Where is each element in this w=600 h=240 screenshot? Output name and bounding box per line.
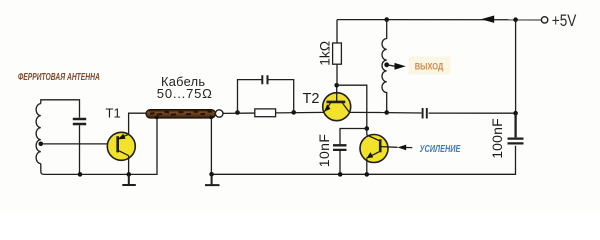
wire to 10nF top [340,129,367,146]
node Q3 collector [365,126,370,131]
wire T1 base [41,143,117,145]
svg-text:100nF: 100nF [489,118,505,159]
wire Q3 emitter down [366,159,368,175]
wire C1 bottom [79,125,81,174]
inductor L2 output coil [382,20,387,113]
node antenna tap [39,142,44,147]
node Q3 emitter at bus [365,172,370,177]
resistor R2 1kΩ [333,43,342,64]
label ФЕРРИТОВАЯ АНТЕННА [18,71,100,83]
node T1 collector at bus [127,172,132,177]
terminal +5V [541,17,547,23]
wire T2 base to Q3 [337,85,367,128]
wire R2 leads [336,20,338,86]
wire RC top branch [238,80,294,113]
svg-text:T2: T2 [303,91,320,107]
node +5V / C5 [513,111,518,116]
arrow on top bus [481,16,494,23]
wire Q3 base out [382,146,398,149]
label Кабель [157,74,213,101]
svg-text:10nF: 10nF [316,134,332,168]
svg-text:T1: T1 [106,105,121,120]
label 100nF [489,118,505,159]
svg-text:УСИЛЕНИЕ: УСИЛЕНИЕ [420,143,462,154]
ground middle [205,174,220,185]
wire top bus [337,19,541,21]
transistor Q3 gain control [360,135,388,163]
capacitor C4 inline [423,108,427,119]
wire T2 collector right [349,111,386,113]
arrow УСИЛЕНИЕ [398,145,407,151]
wire T1 collector down [128,156,130,175]
cable coax body [146,110,216,118]
arrow to ВЫХОД [387,65,395,66]
wire antenna top [41,100,80,118]
label УСИЛЕНИЕ [420,143,462,154]
label ВЫХОД [409,57,451,75]
capacitor C3 10nF [333,145,347,150]
wire to C4 [387,112,422,114]
svg-text:ФЕРРИТОВАЯ АНТЕННА: ФЕРРИТОВАЯ АНТЕННА [18,71,100,83]
svg-text:1kΩ: 1kΩ [318,41,333,66]
capacitor C5 100nF [508,113,524,143]
capacitor C1 antenna tuning [73,119,86,124]
inductor L1 antenna coil [36,104,41,164]
node T2 base [334,83,339,88]
wire 10nF bottom [339,150,341,174]
wire Q3 collector up [366,129,368,135]
wire C4 to +5V node [429,112,516,114]
ground left [122,174,136,185]
node L2 tap [384,62,389,67]
wire cable shield right drop [210,118,212,175]
resistor R1 inline [255,109,276,117]
label +5V [552,12,577,31]
wire cable out to T2 [223,112,324,113]
svg-text:+5V: +5V [552,12,577,31]
label 1kΩ [318,41,333,66]
transistor T2 [323,93,351,121]
node shield-right at bus [209,172,214,177]
node L2 bottom junction [384,110,389,115]
node coil top [384,17,389,22]
label T2 [303,91,320,107]
node +5V branch [513,17,518,22]
node RC left [235,110,240,115]
wire T2 base up [336,85,338,101]
wire T1 emitter up [129,113,146,134]
node C1 bottom [78,172,83,177]
svg-text:ВЫХОД: ВЫХОД [415,60,444,71]
cable open end [215,110,223,117]
wire bottom bus right [212,146,516,175]
wire +5V drop [515,20,517,114]
label 10nF [316,134,332,168]
node RC right [291,110,296,115]
node cable shield right [209,116,213,120]
node 10nF at bus [338,172,343,177]
capacitor C2 top branch [262,75,267,84]
wire bottom bus left [41,118,157,175]
transistor T1 [107,132,135,160]
node cable shield left [155,116,159,120]
svg-text:50...75Ω: 50...75Ω [157,86,213,101]
label T1 [106,105,121,120]
